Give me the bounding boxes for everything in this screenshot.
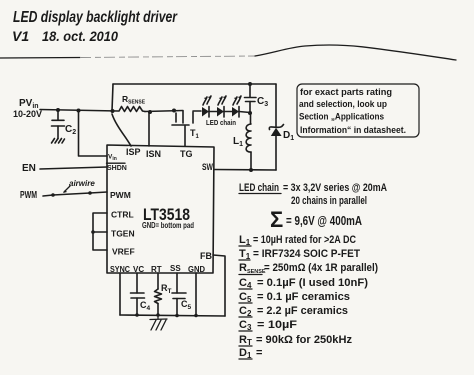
svg-text:ISP: ISP xyxy=(126,147,141,157)
svg-text:= 90kΩ for 250kHz: = 90kΩ for 250kHz xyxy=(256,334,353,346)
svg-text:V1: V1 xyxy=(12,28,29,44)
svg-text:ISN: ISN xyxy=(146,149,161,159)
svg-text:PWM: PWM xyxy=(20,190,37,201)
svg-text:VREF: VREF xyxy=(112,247,135,257)
svg-text:10-20V: 10-20V xyxy=(13,109,42,119)
svg-text:TG: TG xyxy=(180,149,193,159)
svg-text:SW: SW xyxy=(202,162,213,172)
svg-text:20 chains in parallel: 20 chains in parallel xyxy=(291,195,367,207)
svg-text:GND= bottom pad: GND= bottom pad xyxy=(142,221,194,230)
svg-text:LED chain: LED chain xyxy=(239,182,279,194)
svg-text:RT: RT xyxy=(151,265,162,274)
svg-text:= 10µH rated for >2A DC: = 10µH rated for >2A DC xyxy=(253,234,356,246)
svg-text:LED chain: LED chain xyxy=(206,118,236,127)
svg-text:FB: FB xyxy=(200,251,212,261)
svg-text:SS: SS xyxy=(170,264,181,273)
svg-text:= 250mΩ (4x 1R parallel): = 250mΩ (4x 1R parallel) xyxy=(264,262,378,274)
svg-text:and selection, look up: and selection, look up xyxy=(299,99,387,110)
svg-text:= 9,6V @ 400mA: = 9,6V @ 400mA xyxy=(286,213,362,228)
svg-text:CTRL: CTRL xyxy=(111,210,134,220)
svg-text:Σ: Σ xyxy=(270,207,283,232)
svg-text:VC: VC xyxy=(133,265,144,274)
svg-text:airwire: airwire xyxy=(69,179,95,188)
svg-text:EN: EN xyxy=(22,163,36,174)
svg-text:TGEN: TGEN xyxy=(111,229,135,239)
svg-text:18. oct. 2010: 18. oct. 2010 xyxy=(42,28,118,44)
svg-text:= 2.2 µF ceramics: = 2.2 µF ceramics xyxy=(257,305,348,317)
svg-text:= 10µF: = 10µF xyxy=(257,319,297,331)
svg-text:= 3x 3,2V series @ 20mA: = 3x 3,2V series @ 20mA xyxy=(283,182,387,194)
svg-text:Section „Applications: Section „Applications xyxy=(299,112,384,123)
svg-text:LED display backlight driver: LED display backlight driver xyxy=(13,9,178,26)
svg-text:for exact parts rating: for exact parts rating xyxy=(300,87,392,98)
svg-text:=: = xyxy=(256,347,262,359)
svg-text:= IRF7324 SOIC P-FET: = IRF7324 SOIC P-FET xyxy=(253,248,360,260)
svg-text:= 0.1 µF ceramics: = 0.1 µF ceramics xyxy=(257,291,350,303)
svg-text:PWM: PWM xyxy=(110,190,131,200)
svg-text:SHDN: SHDN xyxy=(107,165,127,172)
svg-text:Information“ in datasheet.: Information“ in datasheet. xyxy=(300,125,406,136)
svg-text:= 0.1µF (I used 10nF): = 0.1µF (I used 10nF) xyxy=(257,277,368,289)
